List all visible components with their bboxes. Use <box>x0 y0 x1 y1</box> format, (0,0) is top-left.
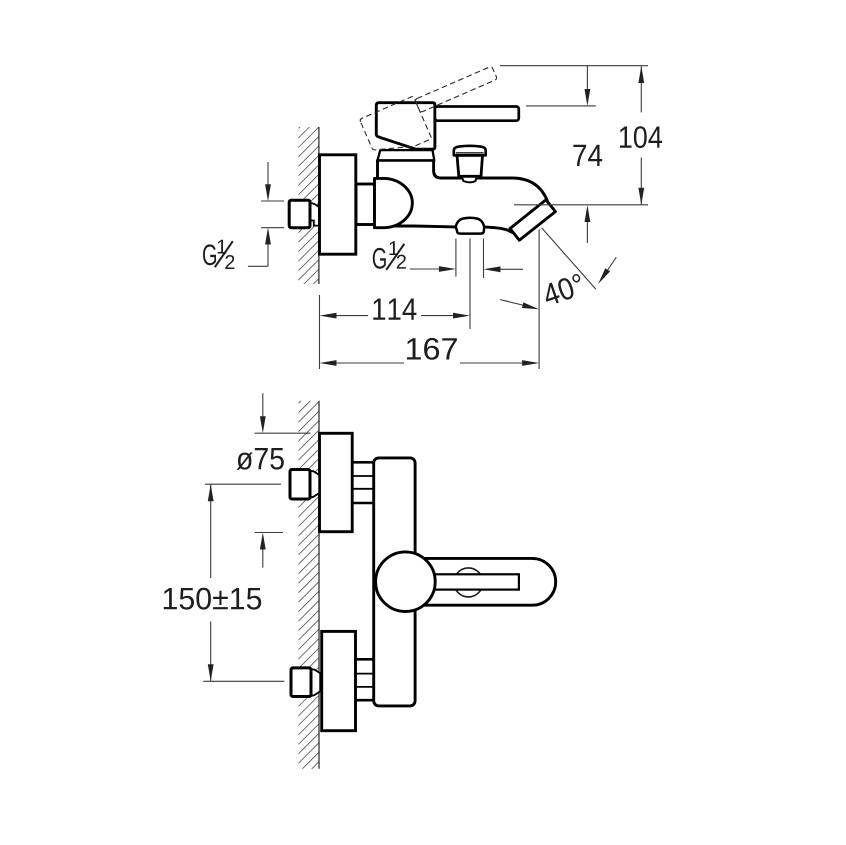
handle collar <box>378 150 435 160</box>
connector neck flange-to-body <box>356 184 375 225</box>
handle lever (solid) <box>435 107 519 121</box>
dimension 104 <box>640 66 642 112</box>
diverter knob neck <box>462 176 477 182</box>
40 degree arc arrow on vertical line <box>500 300 526 306</box>
check-valve hemisphere <box>375 178 413 227</box>
wall flange (top view) <box>320 155 356 254</box>
dimension extension line at spout level <box>514 204 648 206</box>
lower wall flange (front view) <box>322 631 356 730</box>
wall hatch (top view) <box>299 127 319 284</box>
dia 75 dimension: bottom arrow <box>262 547 264 568</box>
extension line upper nipple centerline <box>205 483 281 485</box>
left G1/2 label <box>203 240 234 269</box>
left G1/2 extension lines <box>261 200 284 202</box>
dimension 114 <box>319 295 321 369</box>
extension line lower nipple centerline <box>203 680 284 682</box>
faucet body (top view) <box>378 160 549 234</box>
upper nipple <box>310 471 319 498</box>
cartridge circle <box>376 552 436 612</box>
mid G1/2 label <box>373 241 406 270</box>
extension line at flange bottom <box>255 532 284 534</box>
dia 75 dimension: top arrow <box>262 393 264 419</box>
dimension extension line top (dashed handle height) <box>500 65 648 67</box>
diverter knob cup <box>457 155 483 176</box>
mid G1/2 leader and arrow <box>410 268 443 270</box>
lower nipple <box>311 669 320 696</box>
150 dimension line upper segment <box>210 484 212 578</box>
handle block (solid) <box>376 103 435 150</box>
diverter knob cap <box>454 146 486 155</box>
dimension 167 <box>538 229 540 369</box>
dimension 74 <box>586 66 588 90</box>
upper wall flange (front view) <box>320 433 353 531</box>
dia 75 label <box>237 448 284 470</box>
handle in raised position (dashed) <box>359 63 508 162</box>
handle lever bar <box>432 574 519 589</box>
150 dimension line lower segment <box>210 622 212 682</box>
spout tip cap (rotated rectangle, 40 deg) <box>510 200 555 240</box>
40 degree arc arrow on spout line <box>606 257 616 272</box>
handle capsule <box>420 558 556 605</box>
dimension extension line at lever top <box>526 105 596 107</box>
mixer body (front view) <box>374 458 415 706</box>
extension line at flange top <box>255 432 311 434</box>
wall face line (front view) <box>318 401 320 769</box>
bump centerline <box>469 239 471 330</box>
mid G1/2 dimension: extension lines under bump <box>455 239 457 277</box>
lower threaded connector <box>355 659 376 700</box>
inlet nipple (top view) <box>310 203 319 226</box>
left G1/2 leader <box>248 265 268 267</box>
wall face line (top view) <box>318 127 320 284</box>
40 degree label <box>541 273 586 307</box>
diverter bump under spout <box>456 218 485 234</box>
wall hatch (front view) <box>299 401 320 769</box>
handle screw circle <box>454 568 483 597</box>
upper threaded connector <box>353 462 375 503</box>
left G1/2 dimension arrows <box>267 162 269 185</box>
40 degree leader line along spout <box>542 228 596 289</box>
150+-15 label <box>164 588 261 610</box>
